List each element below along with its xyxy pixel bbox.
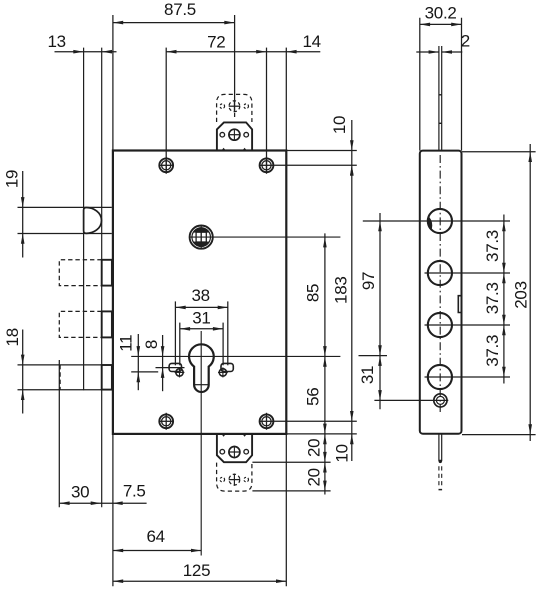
svg-text:87.5: 87.5 <box>164 0 196 19</box>
bottom bracket screw <box>229 447 240 458</box>
svg-text:30: 30 <box>71 482 89 501</box>
bottom-left case screw <box>159 414 173 428</box>
spindle vertical centerline <box>200 225 202 249</box>
deadbolt 3 keep left edge (dashed) <box>59 365 61 390</box>
top latch guide extended (dashed) <box>217 94 252 122</box>
dimension 31 cylinder <box>180 328 223 330</box>
svg-text:37.3: 37.3 <box>483 230 502 262</box>
top-right screw axis <box>266 48 268 173</box>
bottom dashed hole left <box>220 477 225 482</box>
bottom bracket hole right <box>244 449 249 454</box>
svg-text:37.3: 37.3 <box>483 335 502 367</box>
plate top extension right <box>462 151 536 153</box>
svg-text:18: 18 <box>3 328 22 346</box>
faceplate right edge line <box>101 48 103 508</box>
deadbolt circle 2 <box>428 261 452 285</box>
keep extension line <box>58 360 60 507</box>
square spindle follower <box>190 226 213 249</box>
bottom bracket extension right <box>252 461 330 463</box>
dimension 38 <box>175 306 228 308</box>
dimension 37.3 x3 <box>503 215 505 384</box>
dimension 203 <box>529 144 531 441</box>
deadbolt 2 keep (dashed) <box>59 311 101 337</box>
deadbolt circle 4 <box>428 365 452 389</box>
body right edge extension down <box>285 434 287 586</box>
svg-text:11: 11 <box>117 335 136 352</box>
svg-text:183: 183 <box>332 276 351 303</box>
fixing slot centerline extension <box>156 367 185 369</box>
body right edge extension up <box>285 48 287 151</box>
dimension 10 183 10 line <box>351 120 353 461</box>
dimension 97 31 line <box>379 213 381 409</box>
cylinder centerline left-right <box>131 355 340 357</box>
dimension 87.5 <box>113 22 235 24</box>
svg-text:7.5: 7.5 <box>123 482 146 501</box>
body top extension right <box>286 150 357 152</box>
top bracket corner pad right <box>243 148 247 151</box>
faceplate screw <box>434 394 447 407</box>
dimension 18 <box>22 330 24 414</box>
dimension 125 <box>113 580 286 582</box>
svg-text:19: 19 <box>3 170 22 188</box>
lower rod end tick <box>439 489 443 491</box>
hole 31 extension right <box>222 323 224 366</box>
spindle square hole <box>196 232 206 242</box>
dimension 72 <box>166 51 320 53</box>
top bracket screw <box>229 129 240 140</box>
cylinder stem chord <box>194 384 209 386</box>
top bracket hole left <box>220 132 225 137</box>
faceplate side view <box>420 151 462 434</box>
bottom bracket hole left <box>220 449 225 454</box>
cylinder fixing slot right <box>221 363 233 371</box>
deadbolt3 bottom extension <box>18 389 102 391</box>
latch top extension <box>18 206 112 208</box>
lock body plate <box>113 151 286 434</box>
svg-text:72: 72 <box>207 33 225 52</box>
svg-text:8: 8 <box>142 340 161 349</box>
bottom dashed hole right <box>244 477 249 482</box>
bottom latch guide extended (dashed) <box>217 463 252 492</box>
deadbolt 1 keep (dashed) <box>59 260 101 286</box>
plate bottom extension right <box>462 434 536 436</box>
svg-text:37.3: 37.3 <box>483 282 502 314</box>
top dashed hole right <box>244 104 249 109</box>
dimension 8 <box>162 335 164 391</box>
bottom screws centerline extension right <box>274 420 357 422</box>
circle 3 centerline <box>425 324 511 326</box>
top-left case screw <box>159 158 173 172</box>
fixing hole centerline extension <box>131 371 158 373</box>
latch roller circle 1 <box>428 209 452 233</box>
bottom bracket corner pad right <box>243 434 247 437</box>
svg-text:14: 14 <box>302 32 320 51</box>
svg-text:2: 2 <box>461 32 470 51</box>
svg-text:203: 203 <box>511 281 530 308</box>
circle 1 centerline <box>363 220 510 222</box>
slot 38 extension right <box>227 301 229 365</box>
lower rod extension (dashed) <box>438 466 440 487</box>
dimension 14 <box>286 50 296 54</box>
top-left screw axis <box>165 48 167 173</box>
circle 4 centerline <box>425 376 511 378</box>
slot 38 extension left <box>174 301 176 365</box>
faceplate centerline (dash-dot) <box>439 155 441 412</box>
circle 2 centerline <box>425 272 511 274</box>
euro profile cylinder <box>189 344 214 392</box>
svg-text:13: 13 <box>47 32 65 51</box>
svg-text:97: 97 <box>359 272 378 290</box>
bottom bracket corner pad left <box>222 434 226 437</box>
svg-text:10: 10 <box>330 116 349 134</box>
bottom dashed screw <box>229 474 240 485</box>
deadbolt circle 3 <box>428 313 452 337</box>
svg-text:20: 20 <box>304 468 323 486</box>
svg-text:10: 10 <box>333 444 352 462</box>
dimension 64 <box>113 550 201 552</box>
top dashed screw <box>229 101 240 112</box>
bottom mounting bracket <box>217 434 252 462</box>
upper actuator rod <box>438 46 440 151</box>
top-right case screw <box>260 158 274 172</box>
cylinder fixing hole left <box>176 369 183 376</box>
deadbolt 3 section <box>102 365 112 390</box>
dimension 85 56 20 20 line <box>324 233 326 494</box>
latch axis line <box>234 15 236 111</box>
side plate left extension up <box>419 18 421 151</box>
svg-text:30.2: 30.2 <box>425 4 457 23</box>
bottom dashed-guide extension right <box>252 490 330 492</box>
dimension 7.5 <box>112 501 122 505</box>
svg-text:31: 31 <box>192 308 210 327</box>
bottom-right case screw <box>260 414 274 428</box>
deadbolt 1 section <box>102 260 112 286</box>
body left edge extension down <box>112 434 114 586</box>
svg-text:85: 85 <box>304 284 323 302</box>
dimension 13 <box>55 51 117 53</box>
lower actuator rod <box>438 434 440 462</box>
svg-text:64: 64 <box>146 527 164 546</box>
body left edge extension up <box>112 15 114 151</box>
dimension 30 <box>59 502 146 504</box>
dimension 2 <box>416 51 439 53</box>
top mounting bracket <box>217 122 252 150</box>
side plate right extension up <box>461 18 463 151</box>
deadbolt3 top extension <box>18 364 102 366</box>
faceplate left edge line <box>83 48 85 391</box>
spindle horizontal centerline <box>189 236 340 238</box>
latch bolt front <box>84 208 102 234</box>
cylinder vertical centerline <box>200 331 202 556</box>
top bracket corner pad left <box>222 148 226 151</box>
top dashed hole left <box>220 104 225 109</box>
dimension 11 <box>137 334 139 390</box>
latch bottom extension <box>18 233 112 235</box>
side screw centerline extension <box>374 399 448 401</box>
svg-text:38: 38 <box>191 286 209 305</box>
svg-text:56: 56 <box>303 388 322 406</box>
faceplate latch notch <box>458 296 461 313</box>
svg-text:31: 31 <box>358 366 377 384</box>
body bottom extension right <box>286 433 357 435</box>
dimension 19 <box>22 171 24 258</box>
svg-text:20: 20 <box>304 439 323 457</box>
97-31 shared boundary tick <box>359 355 388 357</box>
hole 31 extension left <box>179 323 181 366</box>
top bracket hole right <box>244 132 249 137</box>
cylinder fixing slot left <box>169 363 181 371</box>
svg-text:125: 125 <box>183 561 210 580</box>
top screws centerline extension right <box>274 164 357 166</box>
deadbolt 2 section <box>102 311 112 337</box>
dimension 30.2 <box>420 23 462 25</box>
cylinder fixing hole right <box>219 369 226 376</box>
